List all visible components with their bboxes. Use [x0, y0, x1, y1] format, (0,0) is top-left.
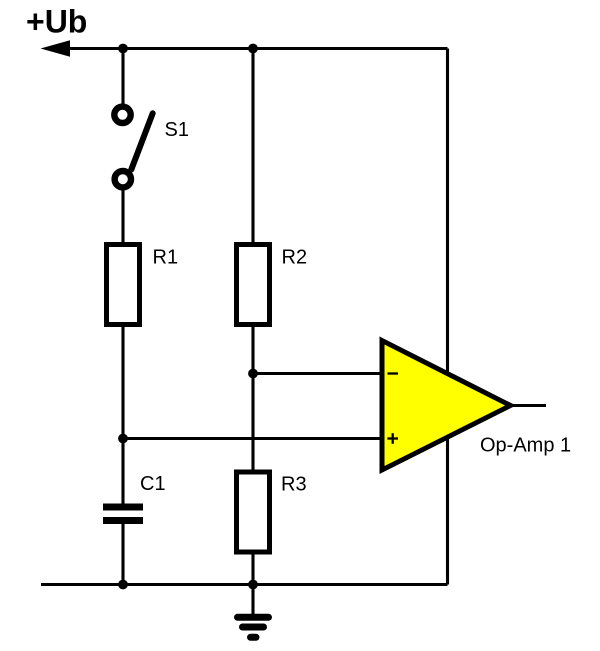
wire inverting input	[253, 372, 383, 375]
resistor R1	[107, 245, 140, 325]
wire op-amp output	[510, 404, 546, 407]
wire R1 to C1	[121, 327, 124, 504]
wire ground stub	[251, 585, 254, 615]
svg-text:R1: R1	[153, 247, 179, 269]
pin label plus	[387, 433, 398, 444]
svg-text:+Ub: +Ub	[26, 4, 87, 40]
wire left branch top	[121, 49, 124, 105]
svg-text:S1: S1	[165, 119, 189, 141]
wire bottom rail	[41, 583, 448, 586]
node inverting junction	[248, 369, 258, 379]
node bottom-left junction	[118, 580, 128, 590]
wire switch to R1	[121, 190, 124, 243]
wire non-inverting input	[123, 437, 383, 440]
wire R3 to bottom rail	[251, 555, 254, 585]
resistor R3	[237, 472, 270, 552]
resistor R2	[237, 245, 270, 325]
node non-inverting junction	[118, 434, 128, 444]
wire middle branch top	[251, 49, 254, 243]
capacitor C1	[103, 507, 143, 521]
wire right vertical (feedback rail)	[446, 49, 449, 585]
pin label minus	[388, 372, 399, 374]
svg-text:C1: C1	[140, 473, 166, 495]
node top-middle junction	[248, 44, 258, 54]
supply arrow	[41, 40, 71, 56]
svg-text:R2: R2	[282, 247, 308, 269]
ground	[238, 617, 269, 637]
node ground junction	[248, 580, 258, 590]
svg-text:R3: R3	[281, 474, 307, 496]
wire top rail	[60, 47, 448, 50]
op-amp Op-Amp 1	[382, 341, 511, 471]
svg-text:Op-Amp 1: Op-Amp 1	[480, 435, 571, 457]
node top-left junction	[118, 44, 128, 54]
wire C1 to bottom rail	[121, 524, 124, 585]
wire R2 to R3	[251, 327, 254, 470]
switch S1	[114, 107, 152, 188]
